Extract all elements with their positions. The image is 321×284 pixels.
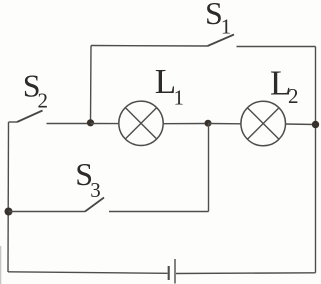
- wire: lamp L2 to right wire node C: [285, 123, 315, 126]
- switch S2 blade: [17, 111, 43, 123]
- battery: long thin plate (positive): [174, 259, 176, 284]
- wire: junction B to lamp L2: [208, 123, 241, 125]
- svg-text:3: 3: [90, 178, 101, 202]
- wire: junction A to lamp L1: [91, 123, 120, 125]
- node A (junction dot at x=90): [87, 119, 94, 126]
- wire: bottom horizontal left segment (bottom-left corner to battery): [8, 272, 168, 274]
- wire: main lamp line S2 contact to junction A: [47, 123, 91, 125]
- node D (junction dot on left wire at S3 line): [5, 208, 13, 216]
- battery: short thick plate (negative): [168, 266, 170, 280]
- wire: bottom horizontal right segment (battery to bottom-right corner): [176, 272, 316, 275]
- scan edge artifact bottom-left: [0, 246, 1, 284]
- svg-text:1: 1: [221, 15, 232, 39]
- node C (junction dot on right wire): [312, 121, 319, 128]
- wire: S3 contact to mid vertical corner: [109, 211, 209, 213]
- switch S3 blade: [85, 198, 104, 212]
- wire: mid vertical from junction B down to S3 line: [208, 124, 210, 212]
- wire: lamp L1 to junction B: [163, 123, 208, 125]
- switch S1 blade: [208, 35, 235, 47]
- svg-text:2: 2: [38, 89, 49, 113]
- lamp L1: [119, 101, 163, 145]
- svg-text:1: 1: [174, 85, 185, 109]
- wire: top horizontal right segment (S1 contact to top-right corner): [237, 46, 316, 48]
- wire: top horizontal left segment (from node above S2-junction to S1): [91, 45, 208, 48]
- wire: vertical from top wire down to main junction A: [90, 46, 93, 124]
- lamp L2: [241, 101, 286, 146]
- wire: S3 line from node D to blade hinge: [9, 211, 86, 213]
- node B (junction dot at x=208): [205, 120, 212, 127]
- switch S2 hinge stub: [9, 121, 18, 123]
- svg-text:2: 2: [288, 84, 299, 108]
- wire: right vertical (top-right corner down to bottom-right corner): [315, 47, 317, 273]
- wire: left vertical (S2 hinge down to bottom-left corner): [7, 122, 10, 272]
